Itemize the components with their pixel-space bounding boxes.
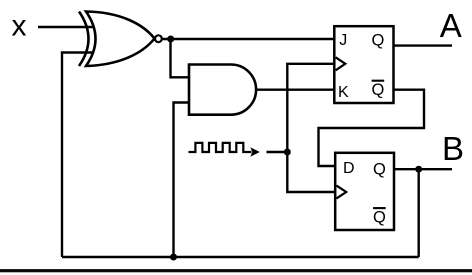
wire B feedback down	[418, 169, 420, 257]
svg-text:B: B	[442, 130, 464, 167]
D flip-flop U4	[335, 153, 394, 230]
JK flip-flop U3	[334, 26, 393, 103]
svg-text:Q: Q	[371, 81, 384, 99]
svg-text:Q: Q	[373, 160, 386, 178]
XNOR output bubble	[155, 35, 162, 42]
label B	[442, 130, 464, 167]
svg-text:x: x	[12, 10, 27, 43]
label x	[12, 10, 27, 43]
wire clock to JK clock input	[287, 64, 336, 152]
wire junction to AND top input	[171, 39, 190, 77]
node clock junction	[284, 149, 291, 156]
AND gate U2	[189, 65, 256, 115]
wire XNOR output to J	[162, 38, 335, 40]
svg-text:A: A	[440, 7, 462, 44]
node junction on bottom rail	[170, 254, 177, 261]
wire AND output to K	[256, 88, 334, 90]
pin label Q of U4	[373, 160, 386, 178]
svg-text:Q: Q	[373, 209, 386, 227]
wire Qbar of U3 to D input	[319, 90, 425, 166]
pin label Qbar of U3	[371, 81, 384, 100]
wire Q to A	[394, 44, 452, 46]
label A	[440, 7, 462, 44]
svg-text:Q: Q	[371, 31, 384, 49]
pin label J	[339, 32, 347, 49]
wire bottom rail to AND lower input	[174, 103, 190, 258]
pin label Q of U3	[371, 31, 384, 49]
wire feedback to XNOR lower input	[62, 53, 93, 258]
wire x input	[38, 26, 96, 28]
wire clock to junction	[267, 151, 288, 153]
svg-text:J: J	[339, 32, 347, 49]
svg-text:K: K	[338, 84, 349, 101]
node junction at XNOR output	[167, 36, 174, 43]
pin label K	[338, 84, 349, 101]
pin label Qbar of U4	[373, 208, 386, 227]
wire clock to D clock input	[287, 152, 336, 192]
wire bottom rail	[62, 256, 419, 258]
svg-text:D: D	[343, 160, 355, 177]
clock waveform symbol	[189, 143, 260, 157]
wire Q of U4 to B	[394, 168, 452, 170]
pin label D	[343, 160, 355, 177]
XNOR gate U1	[79, 12, 155, 67]
node junction at B output	[415, 166, 422, 173]
